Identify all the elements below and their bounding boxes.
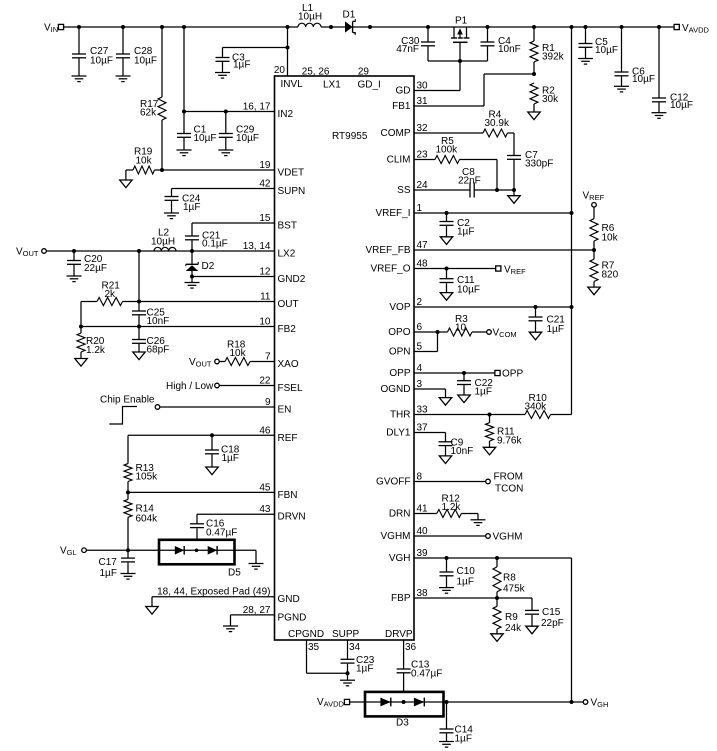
svg-text:CPGND: CPGND	[288, 629, 324, 640]
wire COMP	[414, 132, 483, 134]
svg-text:THR: THR	[390, 410, 411, 421]
wire BST	[192, 223, 275, 236]
wire OPP	[414, 371, 495, 375]
svg-text:FSEL: FSEL	[278, 383, 303, 394]
svg-text:VGHM: VGHM	[381, 531, 411, 542]
ground for C23	[340, 673, 355, 686]
pin 29 GD_I	[358, 67, 381, 91]
svg-text:10: 10	[455, 323, 467, 334]
resistor R10	[525, 393, 572, 419]
pin 46 REF	[259, 425, 297, 444]
svg-text:CLIM: CLIM	[387, 155, 411, 166]
wire PGND pin	[231, 615, 275, 626]
node Chip Enable input	[100, 395, 160, 425]
svg-text:34: 34	[349, 642, 361, 653]
wire AVDD right vertical	[571, 27, 573, 415]
svg-text:OGND: OGND	[381, 384, 411, 395]
svg-text:22: 22	[259, 376, 271, 387]
svg-text:3: 3	[417, 379, 423, 390]
node VCOM terminal	[487, 328, 517, 340]
wire OPO	[414, 330, 448, 334]
capacitor C4	[481, 27, 521, 61]
svg-text:C17: C17	[99, 557, 118, 568]
pin 7 XAO	[265, 352, 299, 371]
svg-text:8: 8	[417, 472, 423, 483]
svg-text:SUPN: SUPN	[278, 186, 306, 197]
diode D2	[186, 251, 215, 277]
svg-text:GD: GD	[396, 86, 411, 97]
node VREF output terminal	[496, 265, 526, 277]
wire IN2	[182, 110, 275, 114]
svg-text:23: 23	[417, 150, 429, 161]
op-amp U1 RT9955 IC body	[275, 76, 415, 640]
svg-text:0.47µF: 0.47µF	[411, 669, 442, 680]
svg-text:VOUT: VOUT	[189, 357, 212, 369]
svg-text:VREF_FB: VREF_FB	[365, 245, 410, 256]
wire VREF_FB	[414, 248, 596, 252]
wire SUPN	[172, 188, 275, 190]
svg-text:1µF: 1µF	[455, 734, 472, 745]
resistor R21	[81, 281, 139, 306]
ground for R11	[483, 447, 495, 455]
pin 30 GD	[396, 81, 429, 97]
svg-text:FBP: FBP	[391, 593, 411, 604]
ground for C1	[177, 150, 192, 156]
inductor L1	[298, 3, 345, 27]
svg-text:VREF_I: VREF_I	[375, 208, 410, 219]
capacitor C12	[652, 27, 693, 113]
node VGH terminal	[583, 698, 608, 710]
resistor R7	[590, 250, 619, 287]
svg-text:13, 14: 13, 14	[243, 241, 271, 252]
wire D5 cathode to ground	[235, 550, 257, 563]
capacitor C22	[457, 373, 493, 398]
wire THR	[414, 413, 525, 417]
capacitor C28	[116, 27, 157, 76]
svg-text:D2: D2	[202, 261, 215, 272]
svg-text:1µF: 1µF	[475, 387, 492, 398]
svg-text:10µF: 10µF	[236, 133, 259, 144]
capacitor C27	[72, 27, 113, 76]
capacitor C15	[525, 598, 564, 629]
svg-text:DRVP: DRVP	[385, 629, 413, 640]
svg-text:1µF: 1µF	[233, 60, 250, 71]
pin 3 OGND	[381, 379, 423, 395]
ground for C6	[614, 86, 629, 92]
svg-text:VAVDD: VAVDD	[682, 23, 710, 35]
capacitor C30	[396, 27, 435, 61]
svg-text:10µF: 10µF	[194, 133, 217, 144]
svg-text:XAO: XAO	[278, 359, 299, 370]
ground for C24	[164, 213, 179, 219]
wire SS	[414, 189, 470, 191]
svg-text:VIN: VIN	[44, 23, 58, 35]
svg-text:1µF: 1µF	[100, 568, 117, 579]
ground for C11	[440, 293, 452, 301]
svg-text:R9: R9	[505, 612, 518, 623]
svg-text:12: 12	[259, 267, 271, 278]
capacitor C6	[615, 27, 656, 86]
svg-text:TCON: TCON	[495, 484, 523, 495]
resistor R14	[124, 492, 158, 550]
svg-text:VOUT: VOUT	[16, 247, 39, 259]
capacitor C10	[440, 558, 476, 588]
svg-text:30.9k: 30.9k	[485, 118, 510, 129]
ground for C27	[72, 76, 87, 82]
svg-text:IN2: IN2	[278, 109, 294, 120]
pin 42 SUPN	[259, 179, 305, 198]
svg-text:10µH: 10µH	[298, 12, 322, 23]
pin 10 FB2	[259, 317, 296, 336]
svg-text:COMP: COMP	[381, 128, 411, 139]
node OPP terminal	[495, 369, 524, 380]
capacitor C21 bootstrap	[185, 231, 228, 252]
svg-text:5: 5	[417, 342, 423, 353]
svg-text:GND: GND	[278, 594, 300, 605]
ground for OGND	[439, 398, 451, 406]
resistor R1	[530, 27, 565, 74]
svg-text:6: 6	[417, 322, 423, 333]
pin 5 OPN	[389, 342, 423, 358]
svg-text:DLY1: DLY1	[386, 428, 411, 439]
svg-text:18, 44, Exposed Pad (49): 18, 44, Exposed Pad (49)	[157, 587, 270, 598]
pin 15 BST	[259, 213, 297, 232]
wire D3 output to VGH	[445, 700, 584, 704]
svg-text:1µF: 1µF	[457, 227, 474, 238]
svg-text:19: 19	[259, 160, 271, 171]
pin 23 CLIM	[387, 150, 428, 166]
svg-text:BST: BST	[278, 221, 297, 232]
svg-text:36: 36	[405, 642, 417, 653]
capacitor C11	[440, 269, 481, 296]
svg-text:31: 31	[417, 96, 429, 107]
capacitor C1	[177, 112, 217, 151]
svg-text:EN: EN	[278, 405, 292, 416]
svg-text:604k: 604k	[136, 514, 159, 525]
capacitor C13	[397, 660, 443, 703]
ground for C28	[116, 76, 131, 82]
wire FB2	[79, 302, 275, 329]
resistor R20	[77, 327, 106, 359]
pin 28, 27 PGND	[243, 605, 307, 624]
capacitor C23	[341, 640, 375, 675]
ground for C3	[215, 73, 230, 79]
ground for C12	[652, 113, 667, 119]
svg-text:PGND: PGND	[278, 612, 307, 623]
svg-text:VOP: VOP	[389, 302, 410, 313]
svg-text:OPN: OPN	[389, 347, 411, 358]
svg-text:0.47µF: 0.47µF	[206, 528, 237, 539]
svg-text:RT9955: RT9955	[332, 131, 368, 142]
ground for R9	[491, 634, 503, 642]
wire DLY1	[414, 433, 446, 442]
svg-text:DRN: DRN	[389, 509, 411, 520]
capacitor C3	[216, 27, 290, 76]
resistor R12	[437, 494, 478, 520]
ground for R19	[120, 180, 132, 188]
svg-text:10k: 10k	[136, 156, 153, 167]
svg-text:105k: 105k	[136, 472, 159, 483]
pin 1 VREF_I	[375, 203, 422, 219]
capacitor C20	[67, 251, 107, 276]
svg-text:7: 7	[265, 352, 271, 363]
svg-text:SUPP: SUPP	[332, 629, 360, 640]
ground for C17	[121, 574, 136, 580]
capacitor C25	[132, 302, 169, 328]
pin 31 FB1	[392, 96, 428, 112]
svg-text:2k: 2k	[105, 289, 117, 300]
svg-text:10nF: 10nF	[498, 44, 521, 55]
ground for D2	[185, 277, 200, 289]
capacitor C26	[132, 327, 169, 356]
pin 32 COMP	[381, 123, 429, 139]
node FSEL High/Low input	[166, 381, 219, 392]
svg-text:D3: D3	[396, 718, 409, 729]
pin 41 DRN	[389, 504, 428, 520]
wire FSEL	[219, 385, 274, 387]
wire VOUT to LX2	[46, 249, 274, 253]
svg-text:16, 17: 16, 17	[243, 102, 271, 113]
svg-text:10: 10	[259, 317, 271, 328]
svg-text:GND2: GND2	[278, 274, 306, 285]
svg-text:High / Low: High / Low	[166, 381, 214, 392]
svg-text:GVOFF: GVOFF	[376, 477, 410, 488]
svg-text:9: 9	[265, 397, 271, 408]
svg-text:VGH: VGH	[591, 698, 609, 710]
svg-text:10nF: 10nF	[451, 446, 474, 457]
pin 16, 17 IN2	[243, 102, 294, 121]
pin 47 VREF_FB	[365, 240, 428, 256]
svg-text:OPP: OPP	[502, 369, 523, 380]
svg-text:0.1µF: 0.1µF	[202, 239, 228, 250]
svg-text:43: 43	[259, 504, 271, 515]
wire GVOFF	[414, 481, 486, 483]
svg-text:R8: R8	[503, 573, 516, 584]
wire GND2	[190, 275, 275, 279]
svg-text:47nF: 47nF	[396, 44, 419, 55]
svg-text:40: 40	[417, 526, 429, 537]
capacitor C2	[440, 213, 475, 238]
pin 25 26 LX1	[302, 67, 342, 91]
pin 45 FBN	[259, 482, 297, 501]
ground for C14	[439, 742, 454, 748]
capacitor C5	[579, 27, 619, 59]
svg-text:392k: 392k	[542, 52, 565, 63]
node VOUT at XAO	[189, 357, 219, 369]
svg-text:24k: 24k	[505, 623, 522, 634]
resistor R2	[530, 83, 559, 112]
wire VGH	[414, 556, 572, 702]
svg-text:VGL: VGL	[60, 546, 77, 558]
resistor R6	[590, 207, 619, 250]
svg-text:28, 27: 28, 27	[243, 605, 271, 616]
svg-text:4: 4	[417, 363, 423, 374]
inductor L2	[151, 228, 176, 252]
svg-text:30k: 30k	[542, 94, 559, 105]
pin 33 THR	[390, 405, 428, 421]
capacitor C16	[190, 519, 237, 551]
node VAVDD bottom terminal	[317, 697, 350, 709]
ground for C21 at VOP	[529, 332, 541, 340]
pin 37 DLY1	[386, 423, 428, 439]
resistor R17	[140, 27, 166, 170]
ground for C18	[206, 467, 218, 475]
svg-text:FROM: FROM	[494, 472, 523, 483]
svg-text:22pF: 22pF	[541, 618, 564, 629]
wire CLIM	[414, 159, 435, 161]
svg-text:VGH: VGH	[389, 553, 411, 564]
pin 12 GND2	[259, 267, 305, 286]
wire LX2 node vertical	[138, 251, 140, 302]
svg-text:1µF: 1µF	[183, 202, 200, 213]
capacitor C14	[440, 702, 474, 745]
ground for C10	[439, 588, 454, 594]
wire GND pin	[152, 597, 275, 607]
ground for C5	[578, 59, 593, 65]
wire REF	[128, 433, 275, 437]
svg-text:30: 30	[417, 81, 429, 92]
svg-text:C10: C10	[457, 566, 476, 577]
pin 8 GVOFF	[376, 472, 422, 488]
pin 4 OPP	[389, 363, 422, 379]
wire VIN rail	[64, 26, 298, 28]
svg-text:GD_I: GD_I	[358, 80, 381, 91]
svg-text:OUT: OUT	[278, 299, 299, 310]
svg-text:LX1: LX1	[323, 80, 341, 91]
capacitor C7	[507, 133, 553, 190]
svg-text:D1: D1	[343, 10, 356, 21]
svg-text:35: 35	[308, 642, 320, 653]
svg-text:P1: P1	[455, 16, 468, 27]
svg-text:VGHM: VGHM	[493, 532, 523, 543]
svg-text:9.76k: 9.76k	[497, 436, 522, 447]
wire OGND	[414, 389, 446, 398]
svg-text:FBN: FBN	[278, 490, 298, 501]
svg-text:1: 1	[417, 203, 423, 214]
wire P1 gate to GD pin	[414, 61, 460, 91]
ground for C26	[133, 352, 145, 360]
svg-text:475k: 475k	[503, 584, 526, 595]
node VOUT terminal	[16, 247, 46, 259]
svg-text:DRVN: DRVN	[278, 512, 306, 523]
svg-text:20: 20	[274, 65, 286, 76]
svg-text:FB2: FB2	[278, 324, 297, 335]
pin 38 FBP	[391, 588, 428, 604]
capacitor C9	[439, 438, 474, 458]
svg-text:330pF: 330pF	[525, 159, 553, 170]
svg-text:VAVDD: VAVDD	[317, 697, 345, 709]
ground for SS network	[508, 196, 520, 204]
svg-text:Chip Enable: Chip Enable	[100, 395, 155, 406]
svg-text:1.2k: 1.2k	[86, 345, 106, 356]
svg-text:1µF: 1µF	[356, 664, 373, 675]
svg-text:29: 29	[358, 67, 370, 78]
pin 36 DRVP	[385, 629, 417, 653]
pin 34 SUPP	[332, 629, 361, 653]
ground for C15	[526, 626, 538, 634]
node VGHM terminal	[486, 532, 523, 543]
pin 40 VGHM	[381, 526, 429, 542]
diode D3 dual diode module	[350, 692, 447, 729]
svg-text:OPP: OPP	[389, 368, 410, 379]
svg-text:10k: 10k	[602, 233, 619, 244]
svg-text:41: 41	[417, 504, 429, 515]
svg-text:1µF: 1µF	[222, 453, 239, 464]
resistor R4	[483, 110, 514, 138]
ground for C2	[440, 237, 452, 245]
capacitor C17	[99, 550, 136, 579]
svg-text:VREF: VREF	[504, 265, 526, 277]
svg-text:22nF: 22nF	[458, 176, 481, 187]
ground for D5	[249, 564, 264, 570]
capacitor C29	[219, 112, 259, 151]
wire DRVP stub	[403, 640, 405, 669]
svg-text:FB1: FB1	[392, 101, 411, 112]
svg-text:42: 42	[259, 179, 271, 190]
capacitor C18	[205, 435, 240, 467]
svg-text:38: 38	[417, 588, 429, 599]
ground for C29	[218, 150, 233, 156]
svg-text:45: 45	[259, 482, 271, 493]
wire VGHM	[414, 535, 486, 537]
capacitor C24	[165, 189, 201, 214]
svg-text:39: 39	[417, 548, 429, 559]
svg-text:22µF: 22µF	[84, 263, 107, 274]
diode D5 dual diode module	[159, 540, 241, 579]
pin 35 CPGND	[288, 629, 324, 653]
wire CPGND stub	[307, 640, 350, 675]
resistor R5	[435, 136, 497, 190]
wire DRVN	[197, 514, 275, 524]
pin 48 VREF_O	[370, 259, 428, 275]
svg-text:VDET: VDET	[278, 168, 305, 179]
resistor R13	[124, 435, 158, 492]
transistor P1	[451, 16, 470, 62]
pin 24 SS	[397, 180, 428, 196]
resistor R18	[219, 340, 274, 366]
svg-text:32: 32	[417, 123, 429, 134]
capacitor C21 at VOP	[529, 307, 566, 335]
ground for C22	[458, 395, 470, 403]
junction dots on VIN rail	[77, 25, 333, 29]
ground for GND pin	[146, 607, 158, 615]
svg-text:10nF: 10nF	[147, 316, 170, 327]
svg-text:1.2k: 1.2k	[442, 502, 462, 513]
ground for R2	[528, 112, 540, 120]
svg-text:1µF: 1µF	[457, 577, 474, 588]
svg-text:2: 2	[417, 297, 423, 308]
svg-text:33: 33	[417, 405, 429, 416]
svg-text:340k: 340k	[525, 402, 548, 413]
pin 20 INVL	[274, 65, 303, 90]
pin 22 FSEL	[259, 376, 303, 395]
pin 2 VOP	[389, 297, 422, 313]
svg-text:10µF: 10µF	[457, 285, 480, 296]
node VREF top terminal	[583, 190, 605, 207]
svg-text:10µF: 10µF	[595, 45, 618, 56]
wire OUT	[137, 300, 275, 304]
capacitor C8	[458, 167, 481, 198]
svg-text:OPO: OPO	[388, 327, 410, 338]
pin 43 DRVN	[259, 504, 305, 523]
svg-text:68pF: 68pF	[147, 345, 170, 356]
wire OPN	[414, 332, 438, 352]
resistor R19	[126, 147, 162, 181]
svg-text:11: 11	[260, 292, 271, 303]
svg-text:37: 37	[417, 423, 429, 434]
svg-text:25, 26: 25, 26	[302, 67, 330, 78]
svg-text:10µF: 10µF	[134, 56, 157, 67]
